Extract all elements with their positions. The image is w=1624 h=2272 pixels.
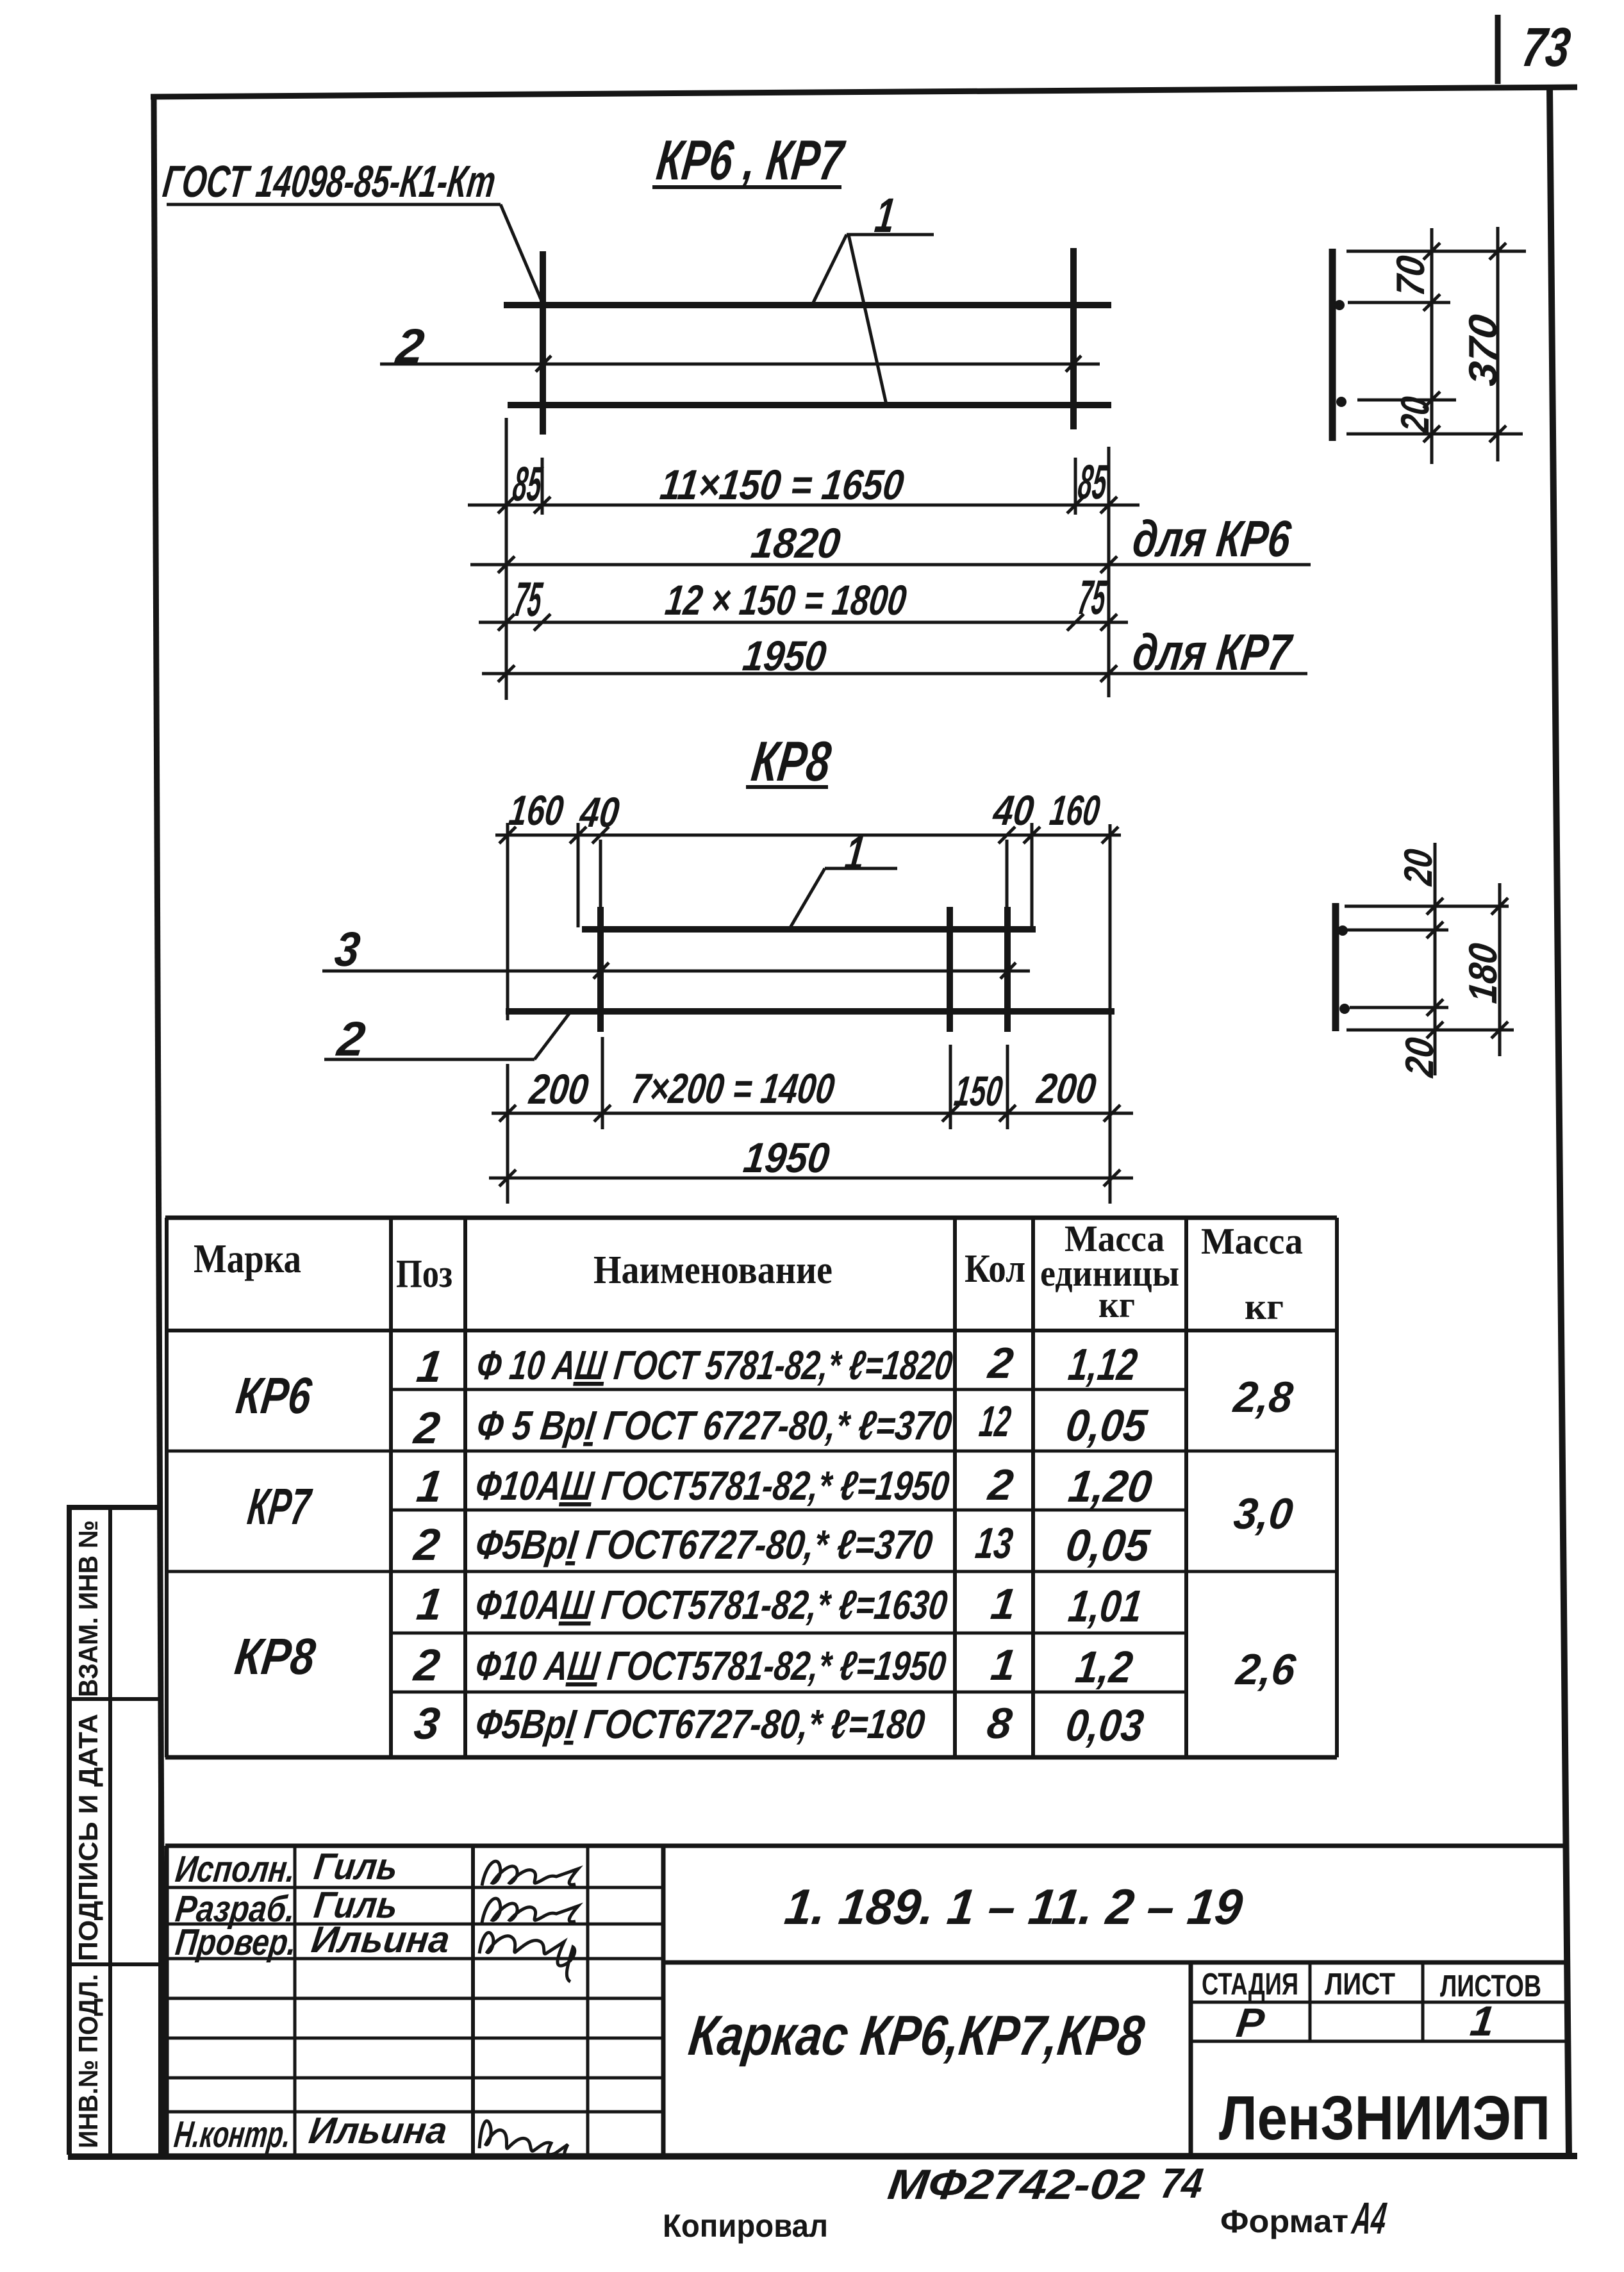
table header bottom line [165,1329,1337,1332]
view title underline [652,185,841,189]
KP6 longitudinal bar pos1 bottom [508,402,1111,408]
section dim line at bottom dot [1357,399,1456,402]
KP6 section longitudinal bar dot bottom [1336,397,1346,407]
table right border [1335,1218,1339,1757]
svg-text:Поз: Поз [396,1252,452,1296]
KP6 left transverse bar pos2 [540,251,546,435]
svg-text:1950: 1950 [741,1134,832,1182]
svg-text:Копировал: Копировал [663,2208,828,2244]
signature row line 5 [167,2037,663,2040]
column divider Naimenovanie/Kol [953,1218,957,1757]
svg-text:ГОСТ 14098-85-К1-Кт: ГОСТ 14098-85-К1-Кт [160,156,499,206]
svg-text:1,20: 1,20 [1066,1461,1155,1511]
svg-text:0,03: 0,03 [1063,1700,1147,1750]
signature squiggle 4 [479,2121,572,2156]
sidebar cell divider 1 [69,1697,160,1701]
svg-text:70: 70 [1389,253,1433,298]
svg-text:ЛИСТ: ЛИСТ [1325,1968,1395,2002]
ticks dim line B [498,556,515,573]
svg-text:12 × 150 = 1800: 12 × 150 = 1800 [663,577,909,624]
row divider KP8 pos2/pos3 [391,1691,1186,1694]
row divider KP7 pos1/pos2 [391,1509,1186,1512]
stage header bottom [1191,2001,1568,2004]
KP8 extension above left transverse bar [599,840,602,907]
group divider KP6/KP7 [165,1450,1337,1453]
weld callout leader [501,204,543,304]
svg-text:Формат: Формат [1220,2203,1348,2239]
KP8 extension below mid-right bar [949,1045,952,1129]
stage/list divider [1309,1962,1312,2041]
ticks dim line D [498,665,515,682]
signature row line 6 [167,2077,663,2080]
svg-text:1,2: 1,2 [1073,1641,1136,1692]
svg-text:Каркас КР6,КР7,КР8: Каркас КР6,КР7,КР8 [686,2003,1148,2067]
KP8 extension left 40 [577,823,580,927]
pos 1 label underline [847,233,934,236]
KP8 section dim line bottom [1346,1029,1514,1032]
document number box divider [663,1961,1567,1965]
drawing frame top border [151,87,1577,97]
svg-text:КР8: КР8 [232,1628,319,1686]
tick on pos3 leader at left bar [593,963,609,979]
svg-text:74: 74 [1158,2160,1206,2207]
signature column divider name/signature [471,1846,475,2153]
ticks inner vertical dim [1423,243,1440,260]
svg-text:Гиль: Гиль [311,1846,400,1887]
dimension line 1820 [470,563,1311,567]
ticks KP8 lower dim [499,1105,516,1122]
svg-text:КР6: КР6 [233,1367,315,1425]
KP8 longitudinal bar pos1 top [582,926,1036,933]
ticks dim line C [498,614,515,631]
column divider Poz/Naimenovanie [463,1218,467,1757]
svg-text:20: 20 [1398,1035,1442,1079]
svg-text:160: 160 [506,787,566,834]
section dim line bottom [1346,433,1523,436]
svg-text:Кол: Кол [965,1247,1025,1291]
svg-text:1,01: 1,01 [1066,1580,1145,1631]
svg-text:Провер.: Провер. [173,1921,299,1963]
drawing frame right border [1550,87,1569,2156]
ticks KP8 overall dim [499,1170,516,1186]
row divider KP8 pos1/pos2 [391,1632,1186,1635]
dimension line 12x150=1800 [479,621,1128,624]
stage values bottom [1191,2040,1568,2043]
pos 2 leader line [380,363,1100,366]
tick on leader at left bar [536,356,551,372]
svg-text:40: 40 [990,787,1036,834]
signature column divider role/name [294,1846,297,2153]
ticks KP8 top dim [499,827,516,843]
KP8 section dot top [1338,925,1348,936]
svg-text:Наименование: Наименование [593,1248,833,1292]
KP8 extension above right transverse bar [1006,840,1009,907]
svg-text:Н.контр.: Н.контр. [172,2114,293,2155]
svg-text:А4: А4 [1349,2193,1389,2243]
table top border [165,1216,1337,1220]
signature row line 2 [167,1923,663,1926]
svg-text:кг: кг [1245,1286,1284,1327]
svg-text:370: 370 [1461,312,1505,388]
svg-text:Ф10АШ ГОСТ5781-82,* ℓ=1950: Ф10АШ ГОСТ5781-82,* ℓ=1950 [473,1463,952,1509]
weld callout underline [167,203,501,206]
svg-text:180: 180 [1461,941,1505,1005]
drawing frame left border [154,95,163,2157]
svg-text:Ф 5 ВрІ ГОСТ 6727-80,* ℓ=370: Ф 5 ВрІ ГОСТ 6727-80,* ℓ=370 [474,1402,954,1448]
svg-text:1950: 1950 [740,633,829,680]
ticks outer vertical dim [1489,243,1506,260]
KP8 overall dimension line 1950 [489,1177,1133,1180]
svg-text:Ф5ВрІ ГОСТ6727-80,* ℓ=180: Ф5ВрІ ГОСТ6727-80,* ℓ=180 [473,1701,927,1747]
svg-text:1820: 1820 [749,520,843,567]
KP8 transverse bar right pos3 [1004,907,1011,1032]
svg-text:150: 150 [952,1068,1005,1115]
KP8 section vertical dim outer 180 [1498,883,1502,1056]
KP8 lower dimension line 7x200 [492,1112,1133,1115]
column divider Kol/Massa edinicy [1031,1218,1035,1757]
title block left border [165,1846,169,2156]
svg-text:13: 13 [973,1519,1015,1568]
list/listov divider [1421,1962,1425,2041]
svg-text:40: 40 [577,789,622,836]
tick on leader at right bar [1066,356,1081,372]
signature column divider signature/date [586,1846,590,2153]
section vertical dim line outer 370 [1496,227,1500,461]
svg-text:ЛенЗНИИЭП: ЛенЗНИИЭП [1219,2083,1550,2153]
column divider Massa edinicy/Massa [1184,1218,1188,1757]
svg-text:для КР6: для КР6 [1130,510,1295,568]
KP8 extension left outer lower [506,1064,510,1204]
group divider KP7/KP8 [165,1570,1337,1573]
svg-text:Ильина: Ильина [306,2110,449,2152]
pos 3 leader line [322,970,1030,973]
svg-text:Ф 10 АШ ГОСТ 5781-82,* ℓ=1820: Ф 10 АШ ГОСТ 5781-82,* ℓ=1820 [474,1342,955,1388]
svg-text:Исполн.: Исполн. [173,1848,297,1890]
KP8 extension right outer [1109,824,1112,1204]
ticks KP8 outer vertical dim [1491,898,1508,915]
section dim line top [1346,250,1526,253]
svg-text:СТАДИЯ: СТАДИЯ [1202,1968,1298,2002]
stage box left edge [1189,1962,1193,2156]
KP8 section dot bottom [1339,1004,1350,1014]
svg-text:20: 20 [1396,847,1441,888]
KP8 section dim line at bottom dot [1350,1006,1448,1009]
svg-text:для КР7: для КР7 [1130,624,1296,681]
svg-text:КР6 , КР7: КР6 , КР7 [654,128,849,192]
KP6 right transverse bar pos2 [1070,248,1077,429]
extension line right outer [1107,447,1111,697]
svg-text:Ф10 АШ ГОСТ5781-82,* ℓ=1950: Ф10 АШ ГОСТ5781-82,* ℓ=1950 [473,1643,949,1689]
ticks dim line A [498,497,515,513]
sidebar outer left edge [67,1507,72,2155]
svg-text:160: 160 [1047,787,1102,834]
pos 1 leader to top bar [813,235,847,304]
signature squiggle 1 [482,1861,578,1886]
KP8 extension below right bar [1006,1045,1009,1129]
svg-text:ВЗАМ. ИНВ №: ВЗАМ. ИНВ № [73,1520,103,1697]
KP8 longitudinal bar pos2 bottom [506,1008,1114,1015]
svg-text:11×150 = 1650: 11×150 = 1650 [658,461,906,509]
svg-text:0,05: 0,05 [1063,1400,1150,1450]
extension line left inner [541,458,544,515]
KP8 extension right 40 [1031,823,1034,927]
KP8 section vertical dim inner [1434,843,1437,1075]
KP8 section dim line top [1345,905,1509,908]
svg-text:3,0: 3,0 [1231,1489,1295,1538]
svg-text:7×200 = 1400: 7×200 = 1400 [629,1065,837,1113]
dimension line 11x150=1650 [468,504,1139,507]
column divider Marka/Poz [389,1218,393,1757]
KP8 section dim line at top dot [1346,929,1448,932]
svg-text:ИНВ.№ ПОДЛ.: ИНВ.№ ПОДЛ. [73,1974,103,2148]
svg-text:2,6: 2,6 [1232,1645,1298,1694]
signature squiggle 2 [482,1898,578,1923]
extension line right inner [1074,458,1077,515]
svg-text:0,05: 0,05 [1063,1520,1153,1570]
dimension line 1950 [482,672,1307,676]
svg-text:1. 189. 1 – 11. 2 – 19: 1. 189. 1 – 11. 2 – 19 [782,1878,1246,1935]
svg-text:Масса: Масса [1201,1220,1303,1262]
svg-text:20: 20 [1393,394,1438,435]
row divider KP6 pos1/pos2 [391,1388,1186,1391]
KP6 longitudinal bar pos1 top [504,302,1111,308]
svg-text:200: 200 [1034,1065,1099,1113]
page number separator tick [1495,15,1501,84]
svg-text:Ильина: Ильина [309,1919,452,1961]
KP8 transverse bar left pos3 [597,907,604,1032]
svg-text:Ф10АШ ГОСТ5781-82,* ℓ=1630: Ф10АШ ГОСТ5781-82,* ℓ=1630 [473,1582,950,1628]
KP8 cross-section cage bar [1332,903,1339,1031]
pos 1 leader to bottom bar [849,235,886,404]
svg-text:ПОДПИСЬ И ДАТА: ПОДПИСЬ И ДАТА [73,1714,103,1961]
sidebar cell divider 2 [69,1962,160,1966]
table left border [165,1218,169,1757]
table bottom border [165,1755,1337,1760]
KP6 section longitudinal bar dot top [1334,300,1345,310]
svg-text:КР7: КР7 [245,1478,315,1536]
signature table right edge [661,1846,666,2153]
svg-text:73: 73 [1519,17,1574,78]
sidebar right edge [158,1507,162,2155]
extension line left outer [505,418,508,700]
svg-text:1,12: 1,12 [1066,1339,1140,1389]
signature squiggle 3 [479,1932,575,1982]
svg-text:Р: Р [1234,2000,1267,2046]
svg-text:Марка: Марка [194,1236,301,1281]
svg-text:12: 12 [977,1397,1013,1446]
KP8 extension left outer upper [506,823,510,1020]
svg-text:2,8: 2,8 [1230,1373,1295,1422]
KP8 transverse bar mid-right pos3 [947,907,953,1032]
sidebar label column divider [108,1507,112,2155]
svg-text:200: 200 [526,1066,592,1113]
KP8 extension below left transverse bar [601,1037,604,1129]
pos 1 leader slant (KP8) [790,868,825,929]
signature row line 7 [167,2110,663,2114]
KP8 top dimension line [495,834,1121,837]
pos 2 leader line (KP8) [324,1058,534,1061]
ticks KP8 inner vertical dim [1427,898,1443,915]
section vertical dim line inner [1430,228,1434,464]
tick on pos3 leader at right bar [1000,963,1016,979]
drawing frame bottom border [68,2156,1577,2157]
svg-text:кг: кг [1098,1284,1135,1325]
pos 2 leader slant (KP8) [534,1012,570,1059]
pos 1 underline (KP8) [825,867,897,870]
section dim line at top dot [1348,301,1450,304]
KP6 cross-section cage bar [1329,249,1336,441]
svg-text:Ф5ВрІ ГОСТ6727-80,* ℓ=370: Ф5ВрІ ГОСТ6727-80,* ℓ=370 [473,1522,935,1568]
title block top border [165,1844,1566,1848]
signature row line 4 [167,1997,663,2000]
svg-text:КР8: КР8 [749,729,834,793]
svg-text:МФ2742-02: МФ2742-02 [885,2161,1147,2209]
signature row line 1 [167,1886,663,1889]
KP8 title underline [746,785,828,789]
signature row line 3 [167,1957,663,1961]
sidebar top edge [67,1505,162,1510]
